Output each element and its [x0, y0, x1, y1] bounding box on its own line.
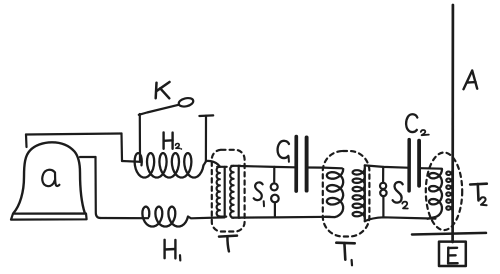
label H2 — [162, 132, 164, 148]
spark gap S2 upper ball — [380, 183, 386, 189]
wire: bottom to H1 — [101, 217, 149, 219]
wire: T1 secondary top to C2 — [365, 165, 408, 167]
key K lever — [139, 105, 179, 115]
label K — [154, 83, 157, 99]
spark gap S1 upper ball — [271, 183, 278, 190]
spark gap S2 lower ball — [380, 190, 386, 196]
ground bar — [412, 233, 486, 235]
choke coil H2 — [135, 153, 204, 177]
label E — [447, 248, 450, 264]
label C2 — [406, 114, 417, 132]
wire: T secondary top to C1 — [239, 166, 295, 168]
label S2 — [393, 182, 403, 203]
spark gap S2 lower lead — [382, 196, 384, 217]
earth box E — [439, 242, 466, 266]
wire: key junction into T primary top — [206, 161, 220, 167]
wire: H2 end to key post junction — [204, 162, 206, 166]
label A — [464, 71, 478, 90]
wire: T1 secondary bottom to T2 — [365, 217, 436, 221]
transformer T secondary winding — [230, 166, 233, 218]
key K contact bar — [199, 114, 213, 117]
wire: generator top terminal up — [25, 135, 28, 148]
capacitor C1 left plate — [294, 137, 298, 191]
key K left post — [139, 114, 141, 162]
wire: C2 to T2 primary — [421, 167, 442, 170]
transformer T dashed core box — [212, 150, 245, 232]
generator a (bell outline) — [14, 142, 85, 213]
wire: right terminal down — [96, 157, 101, 218]
key K knob — [178, 97, 194, 108]
transformer T1 primary winding — [326, 169, 344, 217]
label S1 — [254, 182, 263, 200]
wire: H1 to T primary bottom — [188, 217, 225, 219]
label T2 — [470, 182, 487, 185]
key K right post — [205, 116, 207, 161]
wire: generator right terminal — [80, 156, 96, 158]
capacitor C1 right plate — [305, 137, 309, 190]
label T1 — [336, 241, 354, 244]
transformer T1 dashed core — [323, 151, 370, 237]
wire: step down — [120, 134, 123, 162]
transformer T1 secondary side line — [364, 165, 366, 221]
spark gap S2 upper lead — [382, 167, 384, 183]
transformer T2 primary winding — [428, 169, 443, 219]
label H1 — [163, 240, 165, 258]
spark gap S1 upper lead — [273, 167, 275, 182]
wire: T secondary bottom to T1 — [239, 216, 330, 219]
transformer T2 dashed core — [426, 153, 462, 231]
label T — [219, 236, 237, 237]
transformer T2 secondary winding — [446, 170, 452, 212]
choke coil H1 — [142, 207, 188, 227]
spark gap S1 lower ball — [271, 195, 279, 203]
antenna wire A — [451, 5, 454, 242]
transformer T1 secondary winding — [353, 168, 365, 218]
label C1 — [278, 141, 289, 158]
capacitor C2 right plate — [417, 141, 421, 186]
wire: C1 to T1 — [309, 166, 343, 169]
capacitor C2 left plate — [407, 140, 411, 191]
label a (cursive) — [42, 170, 55, 186]
transformer T primary winding — [217, 167, 220, 217]
wire: top horizontal to step — [26, 134, 122, 135]
spark gap S1 lower lead — [274, 202, 276, 217]
wire: step to coil junction — [122, 160, 140, 163]
generator base slab — [11, 214, 87, 220]
